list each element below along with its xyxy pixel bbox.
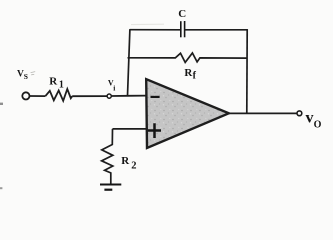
capacitor C plates — [180, 21, 182, 37]
resistor R1 zigzag — [45, 89, 72, 101]
op-amp U1 triangle — [146, 79, 229, 148]
resistor R2 (vertical zigzag) — [102, 129, 113, 184]
wire right feedback vertical — [246, 29, 248, 113]
wire output (apex to terminal) — [229, 112, 297, 114]
ground — [100, 184, 121, 186]
wire from R1 to node Vi — [72, 95, 107, 97]
node Vi (small open circle) — [107, 94, 111, 98]
terminal Vs (open circle) — [22, 92, 29, 99]
wire top feedback right segment (from capacitor) — [185, 29, 248, 31]
wire top feedback left segment (to capacitor) — [130, 29, 180, 31]
faint smudge right of Vs — [31, 72, 36, 75]
wire left feedback vertical — [128, 29, 130, 96]
resistor Rf (zigzag + wires) — [128, 53, 247, 62]
wire from Vs to R1 — [30, 95, 46, 97]
svg-text:C: C — [178, 8, 186, 20]
svg-text:v: v — [306, 110, 314, 127]
wire node Vi to op-amp inverting input — [111, 95, 146, 97]
svg-text:S: S — [24, 72, 28, 81]
svg-text:i: i — [113, 84, 115, 93]
terminal Vo (open circle) — [297, 111, 302, 116]
op-amp minus sign — [151, 96, 160, 98]
faint scan ghost above top wire — [131, 23, 164, 25]
svg-text:O: O — [314, 119, 322, 130]
scan mark left edge — [0, 103, 3, 105]
svg-text:1: 1 — [59, 79, 64, 90]
svg-text:R: R — [49, 76, 58, 88]
svg-text:R: R — [121, 155, 130, 167]
svg-text:2: 2 — [131, 161, 136, 172]
scan mark bottom left — [0, 187, 2, 189]
op-amp plus sign — [148, 123, 161, 138]
wire non-inverting input (from R2 corner to op-amp) — [113, 128, 147, 130]
